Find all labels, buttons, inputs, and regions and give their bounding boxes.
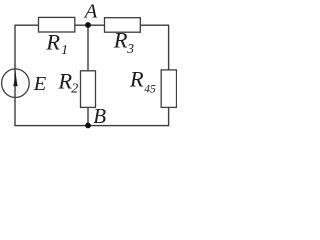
svg-text:A: A xyxy=(83,1,98,23)
svg-text:R: R xyxy=(113,27,128,52)
wire outer loop xyxy=(15,25,169,125)
source E arrow xyxy=(13,70,17,86)
svg-text:R: R xyxy=(45,30,60,55)
svg-text:E: E xyxy=(33,73,47,95)
svg-text:45: 45 xyxy=(144,84,156,96)
source E (circle) xyxy=(2,69,30,98)
svg-text:R: R xyxy=(57,69,72,94)
svg-text:R: R xyxy=(129,66,144,91)
node A (junction dot) xyxy=(85,22,91,28)
node B (junction dot) xyxy=(85,123,91,129)
resistor R2 xyxy=(81,71,96,108)
resistor R1 xyxy=(39,17,75,32)
resistor R45 xyxy=(161,70,176,108)
svg-text:2: 2 xyxy=(71,82,78,97)
svg-text:3: 3 xyxy=(126,41,134,56)
wire middle branch A-B xyxy=(87,25,89,125)
svg-text:B: B xyxy=(93,104,106,128)
resistor R3 xyxy=(105,18,141,33)
svg-text:1: 1 xyxy=(61,42,68,57)
